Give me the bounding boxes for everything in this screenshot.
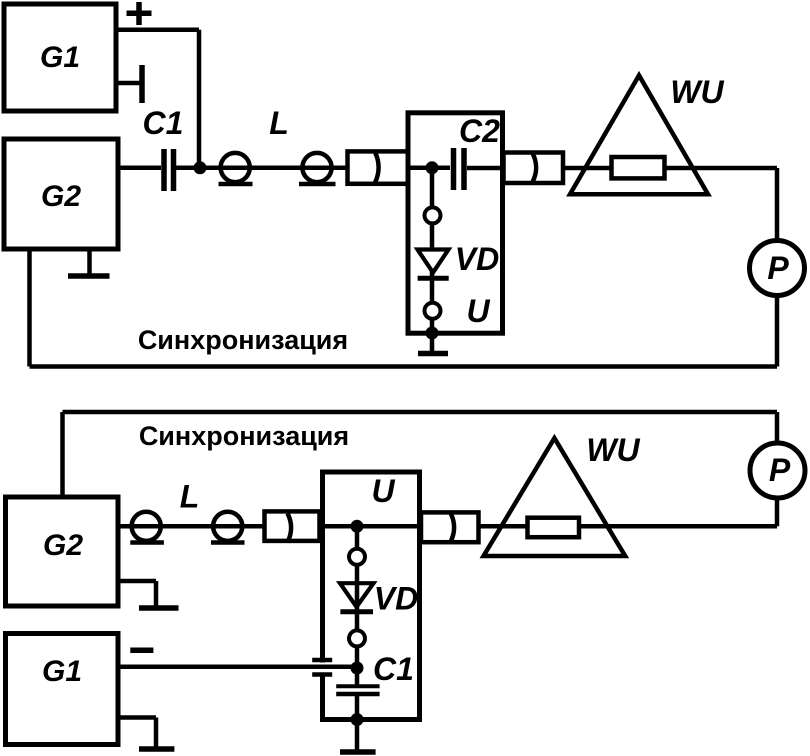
node A junction dot — [194, 161, 207, 174]
sync wire (bottom circuit) — [63, 410, 778, 415]
terminal circle top (VD anode feed) — [425, 207, 441, 223]
terminal circle top (bottom box) — [349, 549, 365, 565]
wire sync to G2 (bottom) — [60, 412, 65, 497]
wire G2 to sync bus (top) — [27, 249, 32, 367]
generator G1 (top circuit) — [4, 4, 116, 111]
node B junction dot — [426, 161, 439, 174]
inductor L loop 2 (top) — [302, 153, 331, 182]
svg-text:C1: C1 — [143, 105, 184, 141]
generator G2 (top circuit) — [4, 139, 118, 249]
sync bus wire (top circuit) — [30, 364, 778, 369]
junction dot C1 node (bottom) — [351, 662, 364, 675]
inductor L loop 2 (bottom) — [213, 512, 242, 541]
svg-text:VD: VD — [374, 581, 418, 617]
generator G1 (bottom circuit) — [6, 634, 119, 745]
wire C1 to node A and through inductor to connector — [176, 166, 348, 171]
plus terminal label — [127, 2, 152, 25]
svg-text:C1: C1 — [373, 651, 414, 687]
terminal circle bottom (bottom box) — [349, 630, 365, 646]
ground (top box) — [430, 333, 435, 351]
junction dot on box bottom — [426, 327, 439, 340]
svg-text:VD: VD — [455, 241, 499, 277]
inductor L loop 2 base line (bottom) — [211, 540, 245, 545]
svg-text:Синхронизация: Синхронизация — [138, 325, 348, 355]
inductor L loop 1 base line (bottom) — [130, 540, 164, 545]
connector X2 divider arc — [533, 153, 537, 182]
resistor inside WU (bottom) — [528, 518, 580, 538]
amplifier WU triangle (top) — [570, 75, 708, 194]
svg-text:U: U — [466, 293, 490, 329]
coax connector X2 (top right) — [504, 153, 564, 184]
wire G1 to C1 node (bottom) — [120, 665, 358, 670]
G1 common terminal stub — [116, 81, 140, 86]
minus terminal label — [130, 647, 153, 653]
junction dot on box bottom (bottom) — [351, 713, 364, 726]
resistor inside WU (top) — [612, 157, 665, 178]
wire G2 output to C1 — [118, 166, 161, 171]
screened box U (bottom device under test) — [323, 472, 420, 720]
diode VD cathode bar — [418, 276, 449, 281]
ground below box (bottom) — [355, 721, 360, 750]
feedthrough bar bottom — [312, 672, 332, 677]
wire down to meter P (top) — [775, 168, 780, 239]
wire junction down through diode chain (bottom) — [355, 531, 360, 719]
wire G1 plus output — [116, 27, 199, 32]
meter P (bottom) — [750, 443, 805, 498]
connector X4 divider arc — [451, 513, 455, 542]
inductor L loop 2 base line — [299, 182, 336, 187]
coax connector X4 (bottom right) — [421, 512, 479, 542]
svg-text:P: P — [767, 250, 789, 286]
diode VD (top circuit) — [418, 250, 449, 273]
G1 common terminal bar — [139, 65, 145, 103]
inductor L loop 1 (bottom) — [132, 512, 161, 541]
svg-text:WU: WU — [670, 74, 724, 110]
svg-text:P: P — [769, 452, 791, 488]
G2 ground bar (top) — [68, 273, 110, 279]
wire vertical from G1 to node A — [197, 30, 202, 168]
wire P to sync bus (top) — [775, 296, 780, 367]
inductor L loop 1 (top) — [221, 153, 250, 182]
G1 ground bar (bottom) — [139, 746, 174, 752]
capacitor C1 (top circuit) — [164, 149, 174, 191]
screened box (top device under test) — [408, 113, 503, 333]
inductor L loop 1 base line — [219, 182, 253, 187]
svg-text:G2: G2 — [41, 180, 81, 213]
meter P (top) — [750, 241, 805, 296]
svg-text:U: U — [371, 473, 395, 509]
G1 ground stub (bottom) — [118, 718, 156, 749]
capacitor C2 — [454, 148, 465, 190]
wire node B down to diode chain — [430, 172, 435, 333]
svg-text:G1: G1 — [42, 655, 82, 688]
G2 ground stub (top) — [87, 249, 92, 274]
diode VD cathode bar (bottom) — [340, 609, 373, 614]
svg-text:G2: G2 — [43, 529, 83, 562]
diode VD (bottom circuit) — [340, 583, 374, 607]
connector X3 divider arc — [288, 513, 292, 542]
feedthrough gap white-out — [316, 663, 329, 673]
coax connector X3 (bottom left) — [265, 511, 320, 541]
wire inside box to C2 — [408, 166, 450, 171]
capacitor C1 plates (bottom) — [345, 688, 369, 692]
coax connector X1 (top left) — [348, 151, 409, 183]
junction dot main wire (bottom box) — [351, 520, 364, 533]
generator G2 (bottom circuit) — [6, 497, 119, 606]
G2 ground stub (bottom) — [118, 581, 156, 607]
feedthrough bar top — [312, 658, 332, 663]
svg-text:Синхронизация: Синхронизация — [139, 421, 349, 451]
G2 ground bar (bottom) — [139, 605, 179, 611]
svg-text:G1: G1 — [40, 41, 80, 74]
amplifier WU triangle (bottom) — [484, 438, 626, 556]
wire P bottom to main wire (bottom) — [775, 499, 780, 526]
connector X1 divider arc — [375, 152, 379, 182]
svg-text:C2: C2 — [459, 113, 500, 149]
svg-text:L: L — [180, 479, 200, 515]
terminal circle bottom (U output) — [425, 303, 441, 319]
wire C2 to triangle WU and meter branch — [467, 166, 777, 171]
wire P top to sync (bottom) — [775, 412, 780, 442]
main wire G2 through inductor to meter branch (bottom) — [120, 524, 778, 529]
svg-text:L: L — [269, 105, 289, 141]
svg-text:WU: WU — [586, 432, 640, 468]
